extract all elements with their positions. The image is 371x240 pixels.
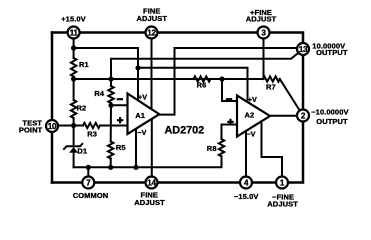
wire: outer box left edge bbox=[51, 33, 54, 183]
A2 non-inverting input plus sign bbox=[227, 119, 233, 125]
wire: A1 -V down to common rail bbox=[135, 129, 137, 168]
node pin 12 bbox=[146, 27, 158, 39]
wire: pin 4 stem to A2 -V bbox=[245, 131, 247, 177]
wire: A1 inverting input bbox=[111, 104, 128, 106]
wire: +10V sense rail (R4 top to pin 13) bbox=[111, 53, 299, 79]
svg-text:A2: A2 bbox=[245, 111, 255, 120]
A2 inverting input minus sign bbox=[226, 98, 232, 100]
svg-text:+V: +V bbox=[248, 95, 257, 104]
svg-text:1: 1 bbox=[280, 178, 285, 187]
node pin 4 bbox=[240, 177, 252, 189]
resistor R3 bbox=[83, 123, 100, 128]
svg-text:OUTPUT: OUTPUT bbox=[316, 117, 348, 126]
wire: outer box top edge bbox=[52, 33, 303, 44]
svg-text:R1: R1 bbox=[79, 60, 89, 69]
node pin 10 bbox=[46, 120, 58, 132]
svg-text:13: 13 bbox=[299, 45, 308, 54]
svg-text:COMMON: COMMON bbox=[73, 191, 109, 200]
svg-text:7: 7 bbox=[86, 178, 91, 187]
svg-text:3: 3 bbox=[261, 28, 266, 37]
node: R5 bottom junction on common rail bbox=[108, 165, 113, 170]
wire: pin 7 stem bbox=[87, 167, 89, 176]
node pin 11 bbox=[68, 27, 80, 39]
resistor R1 bbox=[71, 58, 76, 76]
wire: pin 1 path to A2 trim bbox=[262, 121, 283, 176]
node: R1/R2 junction bbox=[71, 76, 76, 81]
wire: zener rail y79 from R1/R2 junction to R7 bbox=[74, 78, 263, 80]
node pin 2 bbox=[297, 110, 309, 122]
svg-text:R4: R4 bbox=[94, 89, 105, 98]
svg-text:2: 2 bbox=[301, 111, 306, 120]
node pin 13 bbox=[297, 43, 309, 55]
wire: A1 output line up to pin13 rail bbox=[159, 48, 298, 115]
node pin 7 bbox=[82, 177, 94, 189]
svg-text:R3: R3 bbox=[87, 129, 97, 138]
node: junction on A1 +V line bbox=[135, 65, 140, 70]
node: R4 bottom / A1 inverting input junction bbox=[108, 103, 113, 108]
svg-text:R6: R6 bbox=[197, 80, 207, 89]
wire: A2 inverting input bbox=[222, 79, 237, 101]
wire: pin13 to pin2 vertical bbox=[302, 55, 305, 110]
svg-text:R2: R2 bbox=[77, 104, 87, 113]
svg-text:AD2702: AD2702 bbox=[165, 124, 205, 136]
node pin 1 bbox=[276, 177, 288, 189]
svg-text:12: 12 bbox=[147, 28, 156, 37]
wire: common rail from D1 to R8 bbox=[74, 156, 222, 167]
A1 non-inverting input plus sign bbox=[117, 117, 123, 123]
wire: pin 12 stem to A1 top slope bbox=[151, 38, 153, 109]
svg-text:POINT: POINT bbox=[19, 125, 43, 134]
resistor R5 bbox=[108, 142, 113, 159]
op-amp A2 bbox=[237, 96, 270, 137]
wire: R7 to pin 2 diagonal bbox=[280, 79, 300, 111]
svg-text:R7: R7 bbox=[266, 83, 276, 92]
wire: A2 output to pin 2 bbox=[269, 115, 297, 117]
svg-text:ADJUST: ADJUST bbox=[136, 14, 167, 23]
node pin 14 bbox=[146, 177, 158, 189]
svg-text:10: 10 bbox=[48, 122, 57, 131]
node: A1 -V junction on common rail bbox=[133, 165, 138, 170]
svg-text:ADJUST: ADJUST bbox=[134, 198, 165, 207]
wire: +15V rail to A1 +V (corner at x138) bbox=[74, 48, 138, 100]
node pin 3 bbox=[258, 27, 270, 39]
svg-text:R8: R8 bbox=[207, 144, 217, 153]
resistor R6 bbox=[194, 76, 211, 81]
resistor R8 bbox=[219, 139, 224, 156]
svg-text:+V: +V bbox=[138, 93, 147, 102]
svg-text:−15.0V: −15.0V bbox=[234, 192, 259, 201]
svg-text:OUTPUT: OUTPUT bbox=[316, 48, 348, 57]
wire: A2 non-inverting input from R8 bbox=[222, 125, 238, 140]
resistor R4 bbox=[108, 86, 113, 103]
wire: +15V branch rail to A2 +V bbox=[138, 68, 248, 102]
node: R6/R7/A2 inverting junction bbox=[219, 76, 224, 81]
resistor R2 bbox=[71, 100, 76, 118]
op-amp A1 bbox=[128, 94, 160, 135]
svg-text:−10.0000V: −10.0000V bbox=[311, 108, 348, 117]
svg-text:D1: D1 bbox=[77, 147, 87, 156]
A1 inverting input minus sign bbox=[117, 98, 123, 100]
diode D1 zener bbox=[73, 126, 75, 145]
svg-text:+15.0V: +15.0V bbox=[61, 14, 86, 23]
node: junction pin11 stem / +15V rail bbox=[71, 45, 76, 50]
svg-text:11: 11 bbox=[70, 28, 79, 37]
wire: outer box bottom edge bbox=[52, 121, 303, 182]
wire: test point line pin10 to A1 + input bbox=[58, 125, 128, 127]
wire: pin11 stem bbox=[73, 38, 75, 48]
svg-text:ADJUST: ADJUST bbox=[267, 199, 298, 208]
svg-text:ADJUST: ADJUST bbox=[246, 14, 277, 23]
svg-text:A1: A1 bbox=[135, 111, 145, 120]
svg-text:4: 4 bbox=[244, 178, 249, 187]
svg-text:R5: R5 bbox=[116, 143, 126, 152]
node: R2/D1/test point junction bbox=[71, 123, 76, 128]
svg-text:14: 14 bbox=[147, 178, 156, 187]
resistor R7 bbox=[263, 76, 280, 81]
wire: pin 3 stem down to R7 left bbox=[263, 38, 265, 79]
node: R4 top junction on y79 rail bbox=[108, 76, 113, 81]
node: pin 7 junction on common rail bbox=[86, 165, 91, 170]
wire: pin 14 stem from A1 bottom slope bbox=[151, 119, 153, 177]
svg-text:−V: −V bbox=[246, 129, 255, 138]
svg-text:−V: −V bbox=[137, 128, 146, 137]
